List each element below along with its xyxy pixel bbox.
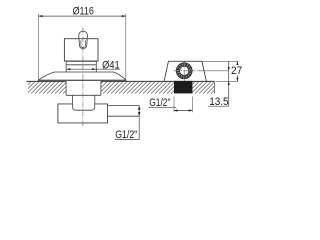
dimension D116 extension lines: [38, 14, 125, 80]
centerline front view: [82, 28, 84, 128]
crosshair centerlines: [174, 60, 195, 81]
dimension 13.5 (leader line with outside arrows): [208, 61, 230, 106]
wall top surface line: [27, 80, 215, 82]
svg-text:Ø41: Ø41: [102, 59, 120, 71]
through-wall pipe and valve cavity (front view): [73, 95, 95, 110]
extension line wall top: [216, 80, 239, 82]
svg-text:13.5: 13.5: [209, 96, 228, 108]
wall hole (front view penetration): [66, 81, 101, 95]
pipe end dimension with arrows and leader to G1/2 label: [115, 106, 141, 140]
handle knob (front view): [79, 31, 88, 49]
flange (escutcheon plate, front view): [38, 72, 126, 80]
valve body (front view): [58, 104, 108, 123]
svg-text:27: 27: [231, 65, 242, 77]
handle stem: [81, 40, 85, 47]
extension line top (body top): [203, 60, 239, 62]
dimension D116 line with arrows: [38, 15, 125, 17]
side view body (trapezoid): [164, 61, 206, 81]
outlet pipe (front view): [108, 106, 140, 117]
cylinder rim band: [66, 61, 96, 72]
wall right edge: [213, 81, 215, 93]
dimension 27: [236, 61, 238, 81]
dimension D41 line with arrows and leader: [66, 68, 120, 70]
G1/2 dimension (side view): [174, 97, 192, 113]
cylinder (escutcheon cover, front view): [64, 39, 98, 61]
knurled ring (valve stem, side view): [176, 63, 192, 79]
svg-text:G1/2": G1/2": [149, 97, 170, 109]
extension line circle center: [198, 70, 229, 72]
label G1/2 (side view) with underline: [149, 97, 177, 109]
wall hatch band (continuous across both views): [18, 80, 228, 94]
svg-text:Ø116: Ø116: [73, 6, 94, 18]
svg-text:G1/2": G1/2": [115, 129, 137, 141]
threaded section in wall (black): [174, 81, 192, 94]
